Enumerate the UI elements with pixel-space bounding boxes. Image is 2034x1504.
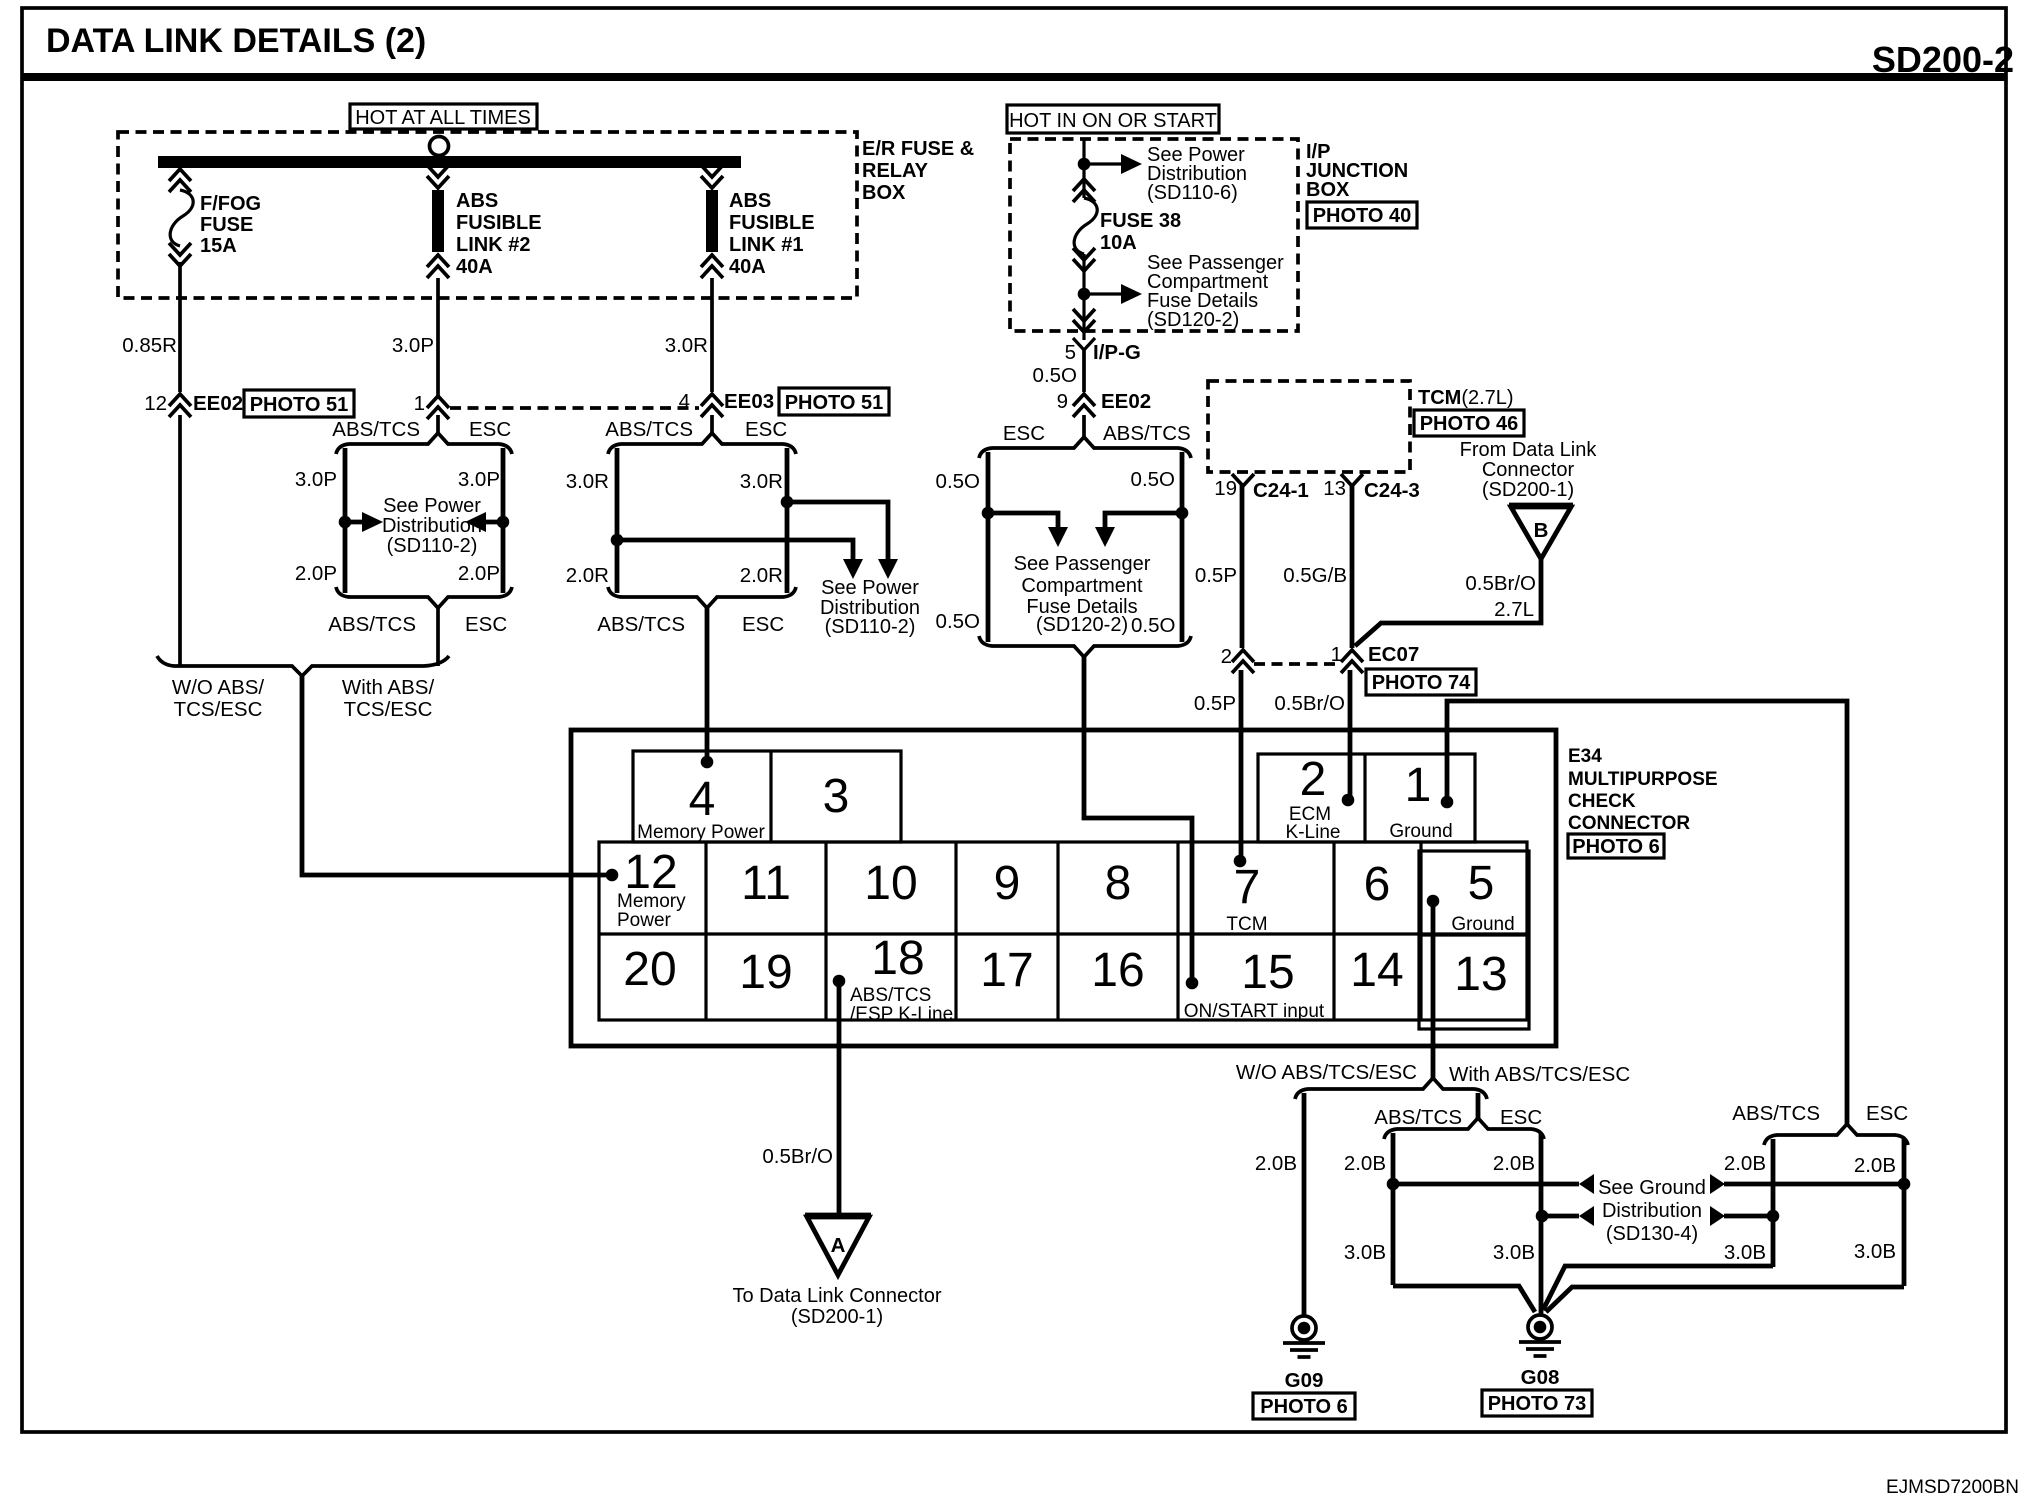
split ABS/TCS / ESC (right ground group) [1764, 1124, 1908, 1145]
photo ref box PHOTO 51 (EE02) [244, 390, 354, 417]
svg-text:TCM(2.7L): TCM(2.7L) [1418, 387, 1514, 409]
svg-text:2.0B: 2.0B [1255, 1152, 1297, 1175]
wire EE03 merge down to E34 pin 4 [705, 606, 710, 762]
arrow to See Power Distribution [1084, 162, 1122, 165]
title underline bar [22, 73, 2006, 81]
svg-text:(SD130-4): (SD130-4) [1606, 1223, 1698, 1245]
node junction power-dist tap [1078, 158, 1091, 171]
wire merge down into E34 to pin 15 [1084, 655, 1192, 983]
svg-text:6: 6 [1364, 858, 1391, 911]
svg-text:2: 2 [1221, 645, 1232, 668]
svg-text:G09: G09 [1285, 1369, 1324, 1392]
svg-text:F/FOG: F/FOG [200, 193, 261, 215]
wire tap down-arrow (left) [988, 513, 1058, 528]
svg-text:0.5O: 0.5O [1131, 468, 1175, 491]
svg-text:19: 19 [1214, 477, 1237, 500]
svg-text:ABS/TCS: ABS/TCS [328, 613, 416, 636]
svg-text:FUSIBLE: FUSIBLE [456, 212, 542, 234]
svg-text:ABS/TCS: ABS/TCS [850, 985, 931, 1006]
E34 main pin grid [599, 842, 1527, 1020]
wire With branch down [1476, 1093, 1481, 1119]
svg-text:CHECK: CHECK [1568, 791, 1636, 812]
svg-text:(SD200-1): (SD200-1) [791, 1306, 883, 1328]
svg-text:8: 8 [1105, 857, 1132, 910]
svg-text:EE03: EE03 [724, 390, 774, 413]
E34 multipurpose check connector outer box [571, 730, 1556, 1046]
wire EE02-9 down to split [1082, 415, 1086, 438]
wire fusible link #2 to connector 1 [436, 278, 440, 396]
svg-text:Distribution: Distribution [1602, 1200, 1702, 1222]
power bus bar [158, 156, 741, 168]
svg-text:/ESP K-Line: /ESP K-Line [850, 1004, 953, 1025]
svg-text:ABS/TCS: ABS/TCS [1374, 1106, 1462, 1129]
svg-text:0.5O: 0.5O [1033, 364, 1077, 387]
wire F/FOG fuse to EE02 [178, 262, 182, 392]
svg-text:14: 14 [1350, 944, 1403, 997]
label box HOT IN ON OR START [1007, 105, 1219, 133]
wire branch ESC (3.0R/2.0R right) [785, 448, 790, 593]
svg-text:ESC: ESC [742, 613, 784, 636]
node junction ABS/TCS branch tap [611, 534, 624, 547]
svg-text:EJMSD7200BN: EJMSD7200BN [1886, 1477, 2019, 1498]
wire ESC branch (G08 right) [1539, 1133, 1544, 1314]
node junction (ABS/TCS right group) [1767, 1210, 1780, 1223]
svg-text:3.0B: 3.0B [1344, 1241, 1386, 1264]
photo ref box PHOTO 46 [1414, 410, 1524, 436]
split ABS/TCS / ESC (G08 group) [1384, 1118, 1544, 1139]
wire EC07-2 to E34 pin 7 [1239, 670, 1244, 861]
svg-text:2.0B: 2.0B [1854, 1154, 1896, 1177]
node junction left power-dist tap [339, 516, 352, 529]
svg-text:2.0B: 2.0B [1493, 1152, 1535, 1175]
svg-text:To Data Link Connector: To Data Link Connector [732, 1285, 941, 1307]
fuse F/FOG branch: top chevrons [169, 169, 191, 192]
wire to E34 pin 12 [302, 674, 612, 875]
fusible link #2 bottom chevrons [427, 255, 449, 278]
node junction passenger-fuse tap [1078, 288, 1091, 301]
svg-text:See Ground: See Ground [1598, 1177, 1706, 1199]
svg-text:0.5O: 0.5O [936, 470, 980, 493]
svg-text:CONNECTOR: CONNECTOR [1568, 813, 1690, 834]
svg-text:G08: G08 [1521, 1366, 1560, 1389]
svg-text:FUSE: FUSE [200, 214, 253, 236]
node junction right power-dist tap [497, 516, 510, 529]
connector C24-1 pin 19 [1232, 474, 1254, 486]
svg-text:See Power: See Power [821, 577, 919, 599]
svg-text:2: 2 [1300, 753, 1327, 806]
wire merge down [436, 606, 440, 666]
svg-text:ESC: ESC [1003, 422, 1045, 445]
split ESC / ABS-TCS (hot-in group) [979, 437, 1191, 458]
E34 sub-box pins 5/13 [1419, 851, 1529, 1029]
fuse 38 squiggle [1074, 198, 1097, 254]
wire connector 1 down to split [436, 415, 440, 434]
svg-text:See Power: See Power [383, 495, 481, 517]
svg-text:18: 18 [871, 932, 924, 985]
svg-text:2.0B: 2.0B [1344, 1152, 1386, 1175]
svg-text:PHOTO 74: PHOTO 74 [1372, 672, 1471, 694]
svg-text:HOT IN ON OR START: HOT IN ON OR START [1009, 110, 1217, 132]
wire pin 5 down to W/O-With split [1431, 901, 1436, 1079]
node junction pin 7 [1234, 855, 1247, 868]
svg-text:ON/START input: ON/START input [1184, 1001, 1325, 1022]
svg-text:PHOTO 51: PHOTO 51 [785, 392, 884, 414]
svg-text:11: 11 [741, 857, 791, 910]
wire pin 18 down to triangle A [837, 981, 842, 1215]
svg-text:10A: 10A [1100, 232, 1137, 254]
svg-text:LINK #1: LINK #1 [729, 234, 803, 256]
svg-text:0.5P: 0.5P [1195, 564, 1237, 587]
svg-text:15: 15 [1241, 946, 1294, 999]
svg-text:3.0R: 3.0R [665, 334, 708, 357]
node junction pin 12 [606, 869, 619, 882]
svg-text:PHOTO 40: PHOTO 40 [1313, 205, 1412, 227]
wire ABS/TCS branch (G08 left) [1391, 1133, 1396, 1285]
wire W/O branch to G09 [1302, 1093, 1307, 1316]
fuse 38 top chevrons [1073, 179, 1095, 202]
svg-text:TCS/ESC: TCS/ESC [344, 698, 433, 721]
wire ABS/TCS branch (right group) [1771, 1139, 1776, 1267]
svg-text:20: 20 [623, 943, 676, 996]
wire branch ABS/TCS (3.0P/2.0P left) [343, 448, 348, 593]
svg-text:BOX: BOX [1306, 179, 1350, 201]
connector EC07 pin 1 [1341, 650, 1363, 673]
fusible link #2 top chevrons [427, 165, 449, 188]
photo ref box PHOTO 6 (E34) [1568, 834, 1664, 858]
merge ESC / ABS-TCS (hot-in group bottom) [979, 636, 1191, 657]
svg-text:3: 3 [823, 770, 850, 823]
merge W/O / With ABS-TCS-ESC [157, 656, 449, 676]
svg-text:0.5O: 0.5O [936, 610, 980, 633]
wire I/P-G to EE02-9 [1082, 348, 1086, 392]
wire to ground distribution (lower left) [1542, 1214, 1579, 1219]
svg-text:3.0B: 3.0B [1724, 1241, 1766, 1264]
svg-text:C24-1: C24-1 [1253, 479, 1309, 502]
connector EE03 pin 4 [701, 394, 723, 417]
svg-text:16: 16 [1091, 944, 1144, 997]
svg-text:(SD110-2): (SD110-2) [387, 535, 478, 557]
svg-text:2.0P: 2.0P [295, 562, 337, 585]
photo ref box PHOTO 6 (G09) [1253, 1393, 1355, 1419]
TCM (2.7L) box (dashed) [1208, 381, 1410, 472]
node junction ECM K-line pin 2 [1342, 794, 1355, 807]
node junction left passenger tap [982, 507, 995, 520]
svg-text:From Data Link: From Data Link [1460, 439, 1598, 461]
svg-text:Power: Power [617, 910, 672, 931]
svg-text:ABS/TCS: ABS/TCS [605, 418, 693, 441]
svg-text:ESC: ESC [465, 613, 507, 636]
svg-text:W/O ABS/TCS/ESC: W/O ABS/TCS/ESC [1236, 1061, 1417, 1084]
svg-text:19: 19 [739, 946, 792, 999]
fuse F/FOG bottom chevrons [169, 243, 191, 266]
triangle connector B [1509, 503, 1573, 508]
svg-text:K-Line: K-Line [1286, 822, 1341, 843]
svg-text:DATA LINK DETAILS (2): DATA LINK DETAILS (2) [46, 22, 426, 60]
wire fusible link #1 to EE03 [710, 278, 714, 392]
svg-text:3.0P: 3.0P [458, 468, 500, 491]
wire C24-3 to EC07-1 [1350, 484, 1355, 648]
svg-text:40A: 40A [456, 256, 493, 278]
fusible link #2 body [432, 190, 444, 252]
svg-text:5: 5 [1065, 341, 1076, 364]
E/R fuse and relay box (dashed) [118, 132, 857, 298]
wire EE02-12 down [178, 415, 182, 666]
svg-text:FUSE 38: FUSE 38 [1100, 210, 1181, 232]
svg-text:2.0B: 2.0B [1724, 1152, 1766, 1175]
connector I/P-G pin 5 [1073, 338, 1095, 350]
svg-text:PHOTO 73: PHOTO 73 [1488, 1393, 1587, 1415]
svg-text:With ABS/TCS/ESC: With ABS/TCS/ESC [1449, 1063, 1630, 1086]
svg-text:9: 9 [994, 857, 1021, 910]
svg-text:1: 1 [414, 392, 425, 415]
svg-text:ESC: ESC [1866, 1102, 1908, 1125]
svg-text:4: 4 [679, 390, 690, 413]
svg-text:ABS/TCS: ABS/TCS [332, 418, 420, 441]
svg-text:17: 17 [980, 944, 1033, 997]
split ABS/TCS / ESC (EE03 group) [608, 433, 796, 454]
node junction ground-dist tap (left group upper) [1387, 1178, 1400, 1191]
node junction pin 1 ground [1441, 796, 1454, 809]
svg-text:Ground: Ground [1451, 914, 1514, 935]
wire fuse 38 down [1082, 254, 1085, 340]
wire tap to down-arrow (right) [787, 502, 888, 560]
svg-text:(SD200-1): (SD200-1) [1482, 479, 1574, 501]
svg-text:3.0P: 3.0P [295, 468, 337, 491]
svg-text:EC07: EC07 [1368, 643, 1419, 666]
svg-text:ESC: ESC [745, 418, 787, 441]
svg-text:3.0R: 3.0R [566, 470, 609, 493]
svg-text:0.85R: 0.85R [122, 334, 177, 357]
split W/O / With (ground side) [1295, 1078, 1487, 1099]
svg-text:TCS/ESC: TCS/ESC [174, 698, 263, 721]
photo ref box PHOTO 40 [1307, 202, 1417, 228]
svg-text:15A: 15A [200, 235, 237, 257]
wire to ground distribution (upper left) [1393, 1182, 1579, 1187]
node junction pin 4 [701, 756, 714, 769]
svg-text:9: 9 [1057, 390, 1068, 413]
node junction pin 15 [1186, 977, 1199, 990]
svg-text:HOT AT ALL TIMES: HOT AT ALL TIMES [355, 107, 531, 129]
svg-text:4: 4 [689, 773, 716, 826]
svg-text:1: 1 [1405, 759, 1432, 812]
dashed boundary between EC07 pins [1254, 662, 1338, 666]
svg-text:0.5Br/O: 0.5Br/O [762, 1145, 833, 1168]
node junction ESC branch tap [781, 496, 794, 509]
svg-text:12: 12 [144, 392, 167, 415]
E34 sub-box pins 2/1 (ECM) [1258, 754, 1475, 842]
svg-text:0.5G/B: 0.5G/B [1283, 564, 1347, 587]
svg-text:Memory Power: Memory Power [637, 822, 765, 843]
wire branch ABS/TCS (0.5O right) [1180, 452, 1185, 642]
svg-text:3.0R: 3.0R [740, 470, 783, 493]
svg-text:ESC: ESC [1500, 1106, 1542, 1129]
svg-text:W/O ABS/: W/O ABS/ [172, 676, 265, 699]
svg-text:BOX: BOX [862, 182, 906, 204]
wire branch ABS/TCS (3.0R/2.0R left) [615, 448, 620, 593]
svg-text:Ground: Ground [1389, 821, 1452, 842]
svg-text:SD200-2: SD200-2 [1872, 39, 2014, 80]
wire right group ESC return to G08 [1546, 1287, 1904, 1312]
svg-text:ABS/TCS: ABS/TCS [1732, 1102, 1820, 1125]
svg-text:MULTIPURPOSE: MULTIPURPOSE [1568, 769, 1718, 790]
connector EE02 pin 12 [169, 394, 191, 417]
E34 sub-box pins 4/3 [633, 751, 901, 842]
fusible link #1 bottom chevrons [701, 255, 723, 278]
wire G08 left branch return to ground [1393, 1286, 1535, 1312]
wire EC07-1 to ECM K-line pin 2 [1348, 670, 1353, 800]
svg-text:TCM: TCM [1226, 914, 1267, 935]
photo ref box PHOTO 51 (EE03) [779, 388, 889, 415]
dashed link line between connectors 1 and 4 [450, 406, 699, 410]
arrow to power distribution (left-pointing) [485, 520, 503, 525]
svg-text:C24-3: C24-3 [1364, 479, 1420, 502]
node junction ground-dist tap (left group lower) [1536, 1210, 1549, 1223]
ground G08 [1519, 1315, 1561, 1356]
svg-text:3.0B: 3.0B [1854, 1240, 1896, 1263]
wire from ground distribution (lower right) [1710, 1206, 1725, 1226]
svg-text:ABS: ABS [729, 190, 771, 212]
svg-text:40A: 40A [729, 256, 766, 278]
svg-text:0.5Br/O: 0.5Br/O [1274, 692, 1345, 715]
svg-text:See Passenger: See Passenger [1014, 553, 1151, 575]
wire branch ESC (3.0P/2.0P right) [501, 448, 506, 593]
svg-text:Compartment: Compartment [1021, 575, 1143, 597]
ground G09 [1283, 1316, 1325, 1357]
svg-text:A: A [831, 1234, 846, 1257]
svg-text:Memory: Memory [617, 891, 686, 912]
svg-text:13: 13 [1454, 948, 1507, 1001]
split ABS/TCS / ESC (under connector 1) [336, 433, 512, 454]
svg-text:3.0P: 3.0P [392, 334, 434, 357]
fuse 38 bottom chevrons [1073, 248, 1095, 271]
svg-text:Distribution: Distribution [382, 515, 482, 537]
wire ESC branch (right group) [1902, 1139, 1907, 1286]
wire right group ABS/TCS return to G08 [1543, 1266, 1773, 1310]
wire EE03-4 down to split [710, 415, 714, 434]
svg-text:EE02: EE02 [193, 392, 243, 415]
svg-text:LINK #2: LINK #2 [456, 234, 530, 256]
svg-text:FUSIBLE: FUSIBLE [729, 212, 815, 234]
bus terminal circle [430, 137, 449, 156]
wire branch ESC (0.5O left) [986, 452, 991, 642]
svg-text:PHOTO 46: PHOTO 46 [1420, 413, 1519, 435]
svg-text:(SD110-2): (SD110-2) [825, 616, 916, 638]
svg-text:PHOTO 51: PHOTO 51 [250, 394, 349, 416]
svg-text:E34: E34 [1568, 746, 1602, 767]
wire tap down-arrow (right) [1105, 513, 1182, 528]
svg-text:10: 10 [864, 857, 917, 910]
wire tap to down-arrow (left) [617, 540, 853, 560]
arrow to power distribution (right-pointing) [345, 520, 363, 525]
svg-text:RELAY: RELAY [862, 160, 929, 182]
svg-text:E/R FUSE &: E/R FUSE & [862, 138, 974, 160]
svg-text:EE02: EE02 [1101, 390, 1151, 413]
arrow to See Passenger Compartment [1084, 292, 1122, 295]
svg-text:2.0P: 2.0P [458, 562, 500, 585]
node junction right passenger tap [1176, 507, 1189, 520]
label box HOT AT ALL TIMES [350, 104, 537, 129]
photo ref box PHOTO 73 (G08) [1482, 1390, 1592, 1416]
wire from ground distribution (upper right) [1710, 1174, 1725, 1194]
connector C24-3 pin 13 [1341, 474, 1363, 486]
node junction pin 5 ground [1427, 895, 1440, 908]
wire pin 1 ground long run to right ground group [1447, 701, 1847, 1125]
svg-text:7: 7 [1234, 861, 1261, 914]
svg-text:13: 13 [1323, 477, 1346, 500]
svg-text:3.0B: 3.0B [1493, 1241, 1535, 1264]
svg-text:ABS/TCS: ABS/TCS [1103, 422, 1191, 445]
svg-text:0.5O: 0.5O [1131, 614, 1175, 637]
connector EE02 pin 9 [1073, 394, 1095, 417]
wire triangle B to EC07-1 [1355, 557, 1541, 646]
svg-text:2.0R: 2.0R [566, 564, 609, 587]
connector EC07 pin 2 [1232, 650, 1254, 673]
I/P junction box (dashed) [1010, 139, 1298, 331]
svg-text:0.5P: 0.5P [1194, 692, 1236, 715]
merge ABS/TCS / ESC (bottom of left group) [336, 587, 512, 608]
svg-text:5: 5 [1468, 857, 1495, 910]
svg-text:I/P-G: I/P-G [1093, 341, 1141, 364]
svg-text:(SD120-2): (SD120-2) [1147, 309, 1239, 331]
wire C24-1 to EC07-2 [1240, 484, 1245, 648]
triangle connector A [805, 1213, 871, 1218]
svg-text:B: B [1534, 519, 1549, 542]
svg-text:PHOTO 6: PHOTO 6 [1260, 1396, 1347, 1418]
svg-text:PHOTO 6: PHOTO 6 [1572, 836, 1659, 858]
svg-text:ABS: ABS [456, 190, 498, 212]
merge ABS/TCS / ESC (bottom of EE03 group) [608, 587, 796, 608]
connector I/P-G exit chevrons [1073, 309, 1095, 332]
node junction (ESC right group) [1898, 1178, 1911, 1191]
fusible link #1 body [706, 190, 718, 252]
svg-text:2.0R: 2.0R [740, 564, 783, 587]
svg-text:ESC: ESC [469, 418, 511, 441]
svg-text:ABS/TCS: ABS/TCS [597, 613, 685, 636]
fusible link #1 top chevrons [701, 165, 723, 188]
photo ref box PHOTO 74 [1366, 669, 1476, 695]
svg-text:0.5Br/O: 0.5Br/O [1465, 572, 1536, 595]
node junction pin 18 [833, 975, 846, 988]
svg-text:2.7L: 2.7L [1494, 598, 1534, 621]
fuse F/FOG squiggle element [170, 190, 193, 246]
svg-text:With ABS/: With ABS/ [342, 676, 435, 699]
wire hot-in feed down [1082, 139, 1085, 198]
svg-text:Connector: Connector [1482, 459, 1575, 481]
connector EE02 pin 1 [427, 396, 449, 419]
svg-text:(SD110-6): (SD110-6) [1147, 182, 1238, 204]
svg-text:(SD120-2): (SD120-2) [1036, 614, 1128, 636]
